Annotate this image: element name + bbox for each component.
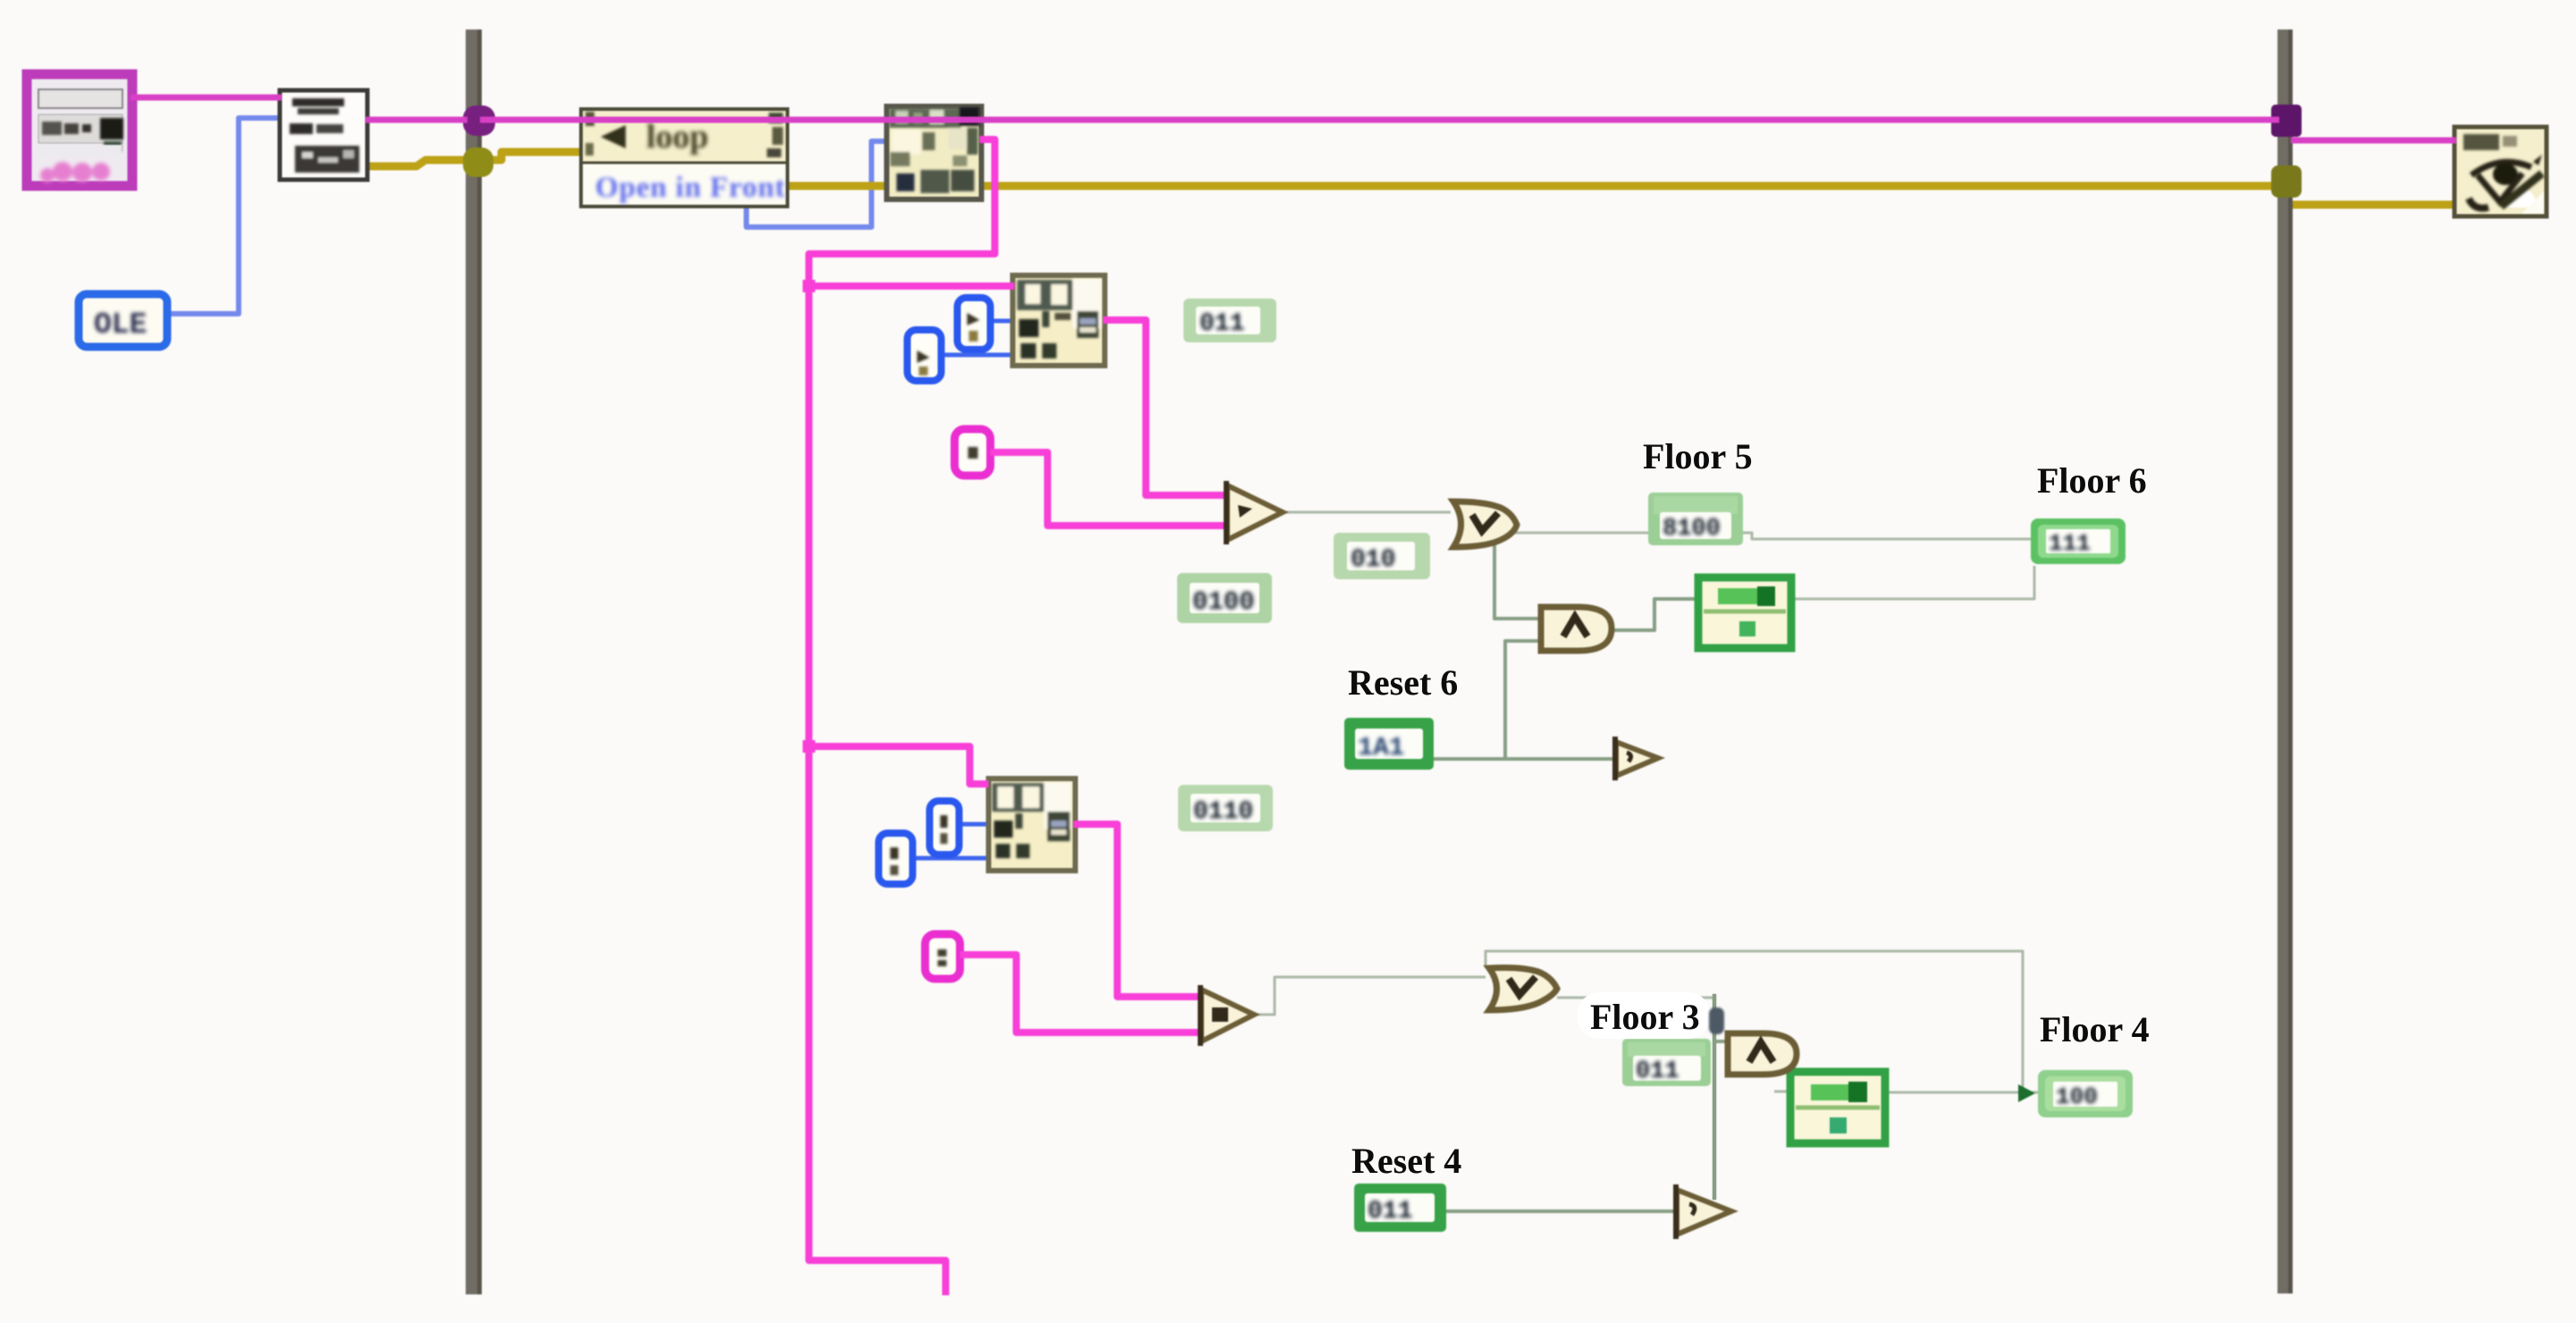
svg-text:Floor 3: Floor 3 xyxy=(1590,997,1700,1037)
svg-text:Floor 5: Floor 5 xyxy=(1643,436,1753,476)
svg-text:Reset 6: Reset 6 xyxy=(1348,662,1458,703)
svg-text:Floor 6: Floor 6 xyxy=(2037,460,2147,501)
svg-text:Reset 4: Reset 4 xyxy=(1351,1141,1461,1181)
svg-text:Floor 4: Floor 4 xyxy=(2040,1009,2150,1049)
